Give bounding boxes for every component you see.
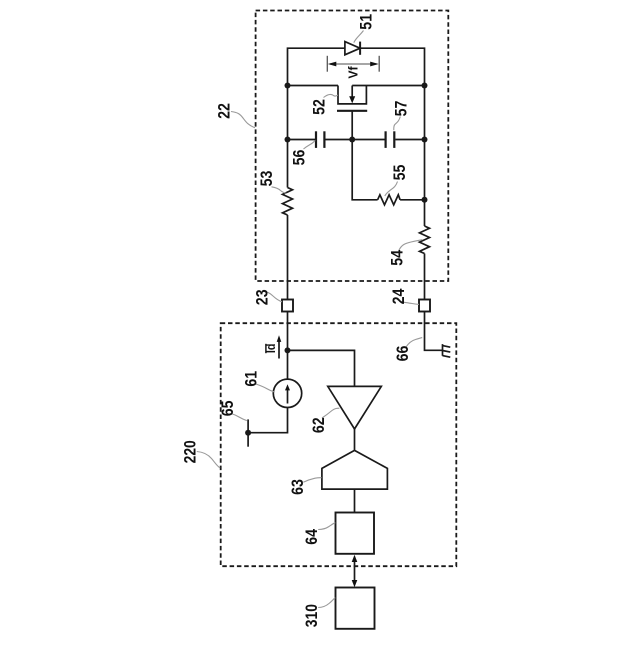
terminal 24 [419,300,430,312]
svg-text:23: 23 [253,289,272,305]
svg-text:63: 63 [288,479,307,495]
transducer 63 [322,450,388,489]
op-amp 62 [328,386,382,429]
svg-text:61: 61 [241,371,260,387]
cap row wires [288,139,316,141]
terminal 23 [282,300,293,312]
svg-text:Id: Id [263,344,278,354]
wire: top-left rail (diode row to junction row) [288,48,345,139]
junction row wire [288,85,339,87]
wire [287,215,289,300]
svg-text:54: 54 [387,249,406,265]
svg-text:310: 310 [302,604,321,627]
diode 51 [345,42,360,55]
current arrow Id [266,335,281,358]
block 64 [336,513,375,554]
wire 63 to 64 [354,489,356,512]
svg-text:66: 66 [393,346,412,362]
junction dots [245,83,427,436]
svg-text:Vf: Vf [346,66,361,79]
resistor 53 [283,188,293,216]
svg-text:24: 24 [389,288,408,304]
svg-text:56: 56 [290,150,309,166]
wire junction to amp [288,350,355,386]
block 310 [336,588,375,629]
dashed box 220 [221,323,457,566]
gate branch down to resistor 55 row [352,140,377,200]
svg-text:52: 52 [310,99,329,115]
Vf dimension arrow [328,62,379,67]
svg-text:55: 55 [390,165,409,181]
Vf dimension ticks [327,56,379,72]
right rail resistor 54 [424,200,426,226]
svg-text:51: 51 [357,14,376,30]
labels (rotated) [181,14,412,627]
svg-text:22: 22 [215,103,234,119]
svg-text:64: 64 [302,529,321,545]
terminal 65 stub [247,419,249,446]
wire 24 to ground [425,312,443,351]
dashed box 22 [256,11,449,282]
capacitor 56 [316,131,324,148]
wire 23 to junction node [287,312,289,380]
transistor 52 [337,86,367,140]
svg-text:62: 62 [309,417,328,433]
double arrow 64-310 [352,555,358,587]
wire [400,199,424,201]
resistor 55 [378,195,401,205]
current source 61 [273,379,301,407]
svg-text:57: 57 [392,101,411,117]
svg-text:53: 53 [257,171,276,187]
ground 66 [443,344,451,357]
capacitor 57 [386,131,395,148]
svg-text:65: 65 [218,401,237,417]
svg-text:220: 220 [181,440,200,463]
wire: top-right rail [360,48,424,200]
wire current source to terminal 65 [248,407,287,433]
leader lines [197,31,422,608]
left rail through resistor 53 down to terminal 23 [287,140,289,188]
wire amp to 63 [354,429,356,450]
